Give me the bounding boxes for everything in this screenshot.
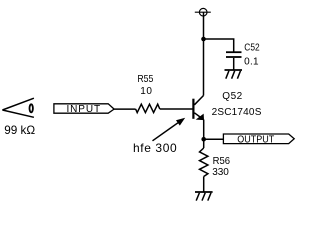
label 10 bbox=[140, 86, 152, 97]
node A junction bbox=[201, 37, 206, 42]
wire R56 to ground bbox=[203, 177, 205, 193]
svg-text:2SC1740S: 2SC1740S bbox=[212, 107, 262, 118]
wire node B to OUTPUT flag bbox=[204, 138, 224, 140]
svg-text:0.1: 0.1 bbox=[244, 56, 259, 67]
label Q52 bbox=[222, 91, 242, 102]
wire emitter to node B bbox=[203, 120, 205, 140]
svg-text:hfe 300: hfe 300 bbox=[133, 141, 177, 155]
label 2SC1740S bbox=[212, 107, 262, 118]
earphone E1 bbox=[2, 98, 34, 117]
wire node B to R56 bbox=[203, 139, 205, 148]
wire C52 to ground bbox=[233, 58, 235, 70]
svg-text:10: 10 bbox=[140, 86, 152, 97]
net flag OUTPUT bbox=[223, 134, 294, 146]
svg-text:C52: C52 bbox=[244, 42, 259, 53]
svg-text:OUTPUT: OUTPUT bbox=[237, 134, 274, 146]
label 0.1 bbox=[244, 56, 259, 67]
wire R55 to Q52 base bbox=[160, 108, 193, 110]
annotation arrow hfe bbox=[153, 119, 185, 141]
net flag INPUT bbox=[54, 104, 114, 115]
wire power rail to collector bbox=[203, 39, 205, 96]
ground (R56) bbox=[195, 192, 213, 201]
wire INPUT to R55 bbox=[114, 108, 136, 110]
svg-text:Q52: Q52 bbox=[222, 91, 242, 102]
svg-text:R56: R56 bbox=[213, 156, 230, 167]
svg-text:99 kΩ: 99 kΩ bbox=[4, 123, 35, 137]
power symbol bbox=[195, 8, 211, 39]
label R55 bbox=[137, 74, 153, 85]
svg-text:330: 330 bbox=[212, 167, 229, 178]
transistor Q52 bbox=[192, 96, 203, 120]
label R56 bbox=[213, 156, 230, 167]
wire node A to C52 bbox=[204, 39, 234, 52]
resistor R56 bbox=[200, 148, 208, 177]
ground (C52) bbox=[225, 70, 243, 79]
label C52 bbox=[244, 42, 259, 53]
svg-text:R55: R55 bbox=[137, 74, 153, 85]
svg-text:INPUT: INPUT bbox=[67, 104, 102, 115]
label 330 bbox=[212, 167, 229, 178]
capacitor C52 bbox=[226, 52, 242, 57]
label hfe 300 bbox=[133, 141, 177, 155]
resistor R55 bbox=[136, 104, 160, 112]
node B junction bbox=[201, 137, 206, 142]
label 99 kΩ bbox=[4, 123, 35, 137]
